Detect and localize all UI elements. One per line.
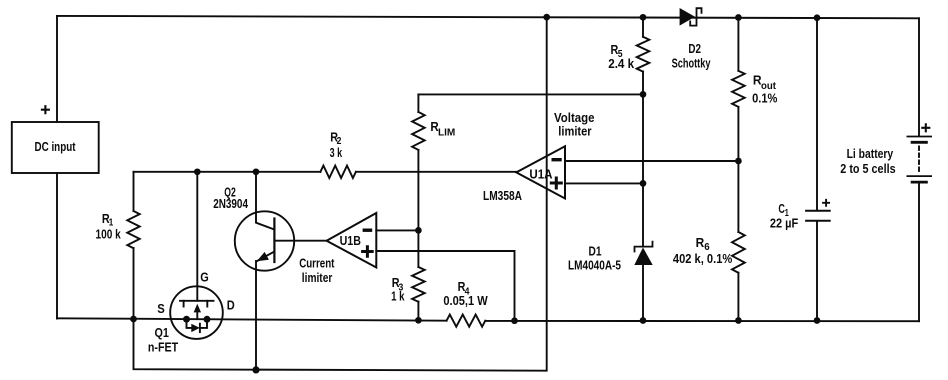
wire DC input negative lead <box>56 173 58 319</box>
wire feedback line RLIM top <box>418 93 643 95</box>
svg-text:LM4040A-5: LM4040A-5 <box>568 258 621 273</box>
zener D1 cathode bar <box>635 242 653 252</box>
svg-text:LM358A: LM358A <box>483 188 522 203</box>
wire C1 top lead <box>816 18 818 210</box>
resistor R5 <box>637 37 650 72</box>
zener D1 triangle <box>634 248 652 266</box>
MOSFET Q1 circle <box>170 286 223 339</box>
resistor R1 <box>127 211 139 248</box>
resistor R2 <box>320 166 355 178</box>
junction dot top rail x546 <box>543 14 550 21</box>
wire mid rail right <box>485 320 919 322</box>
MOSFET Q1 body diode triangle <box>191 324 200 332</box>
junction dot top rail x817 <box>814 14 821 21</box>
wire battery top lead <box>918 18 920 135</box>
wire R1 bottom lead <box>133 248 135 319</box>
wire U1B non-inverting input to R4 right <box>376 251 514 321</box>
resistor R3 <box>412 267 425 302</box>
junction dot gate rail x256 <box>253 168 260 175</box>
wire gate line Q1 <box>196 172 198 301</box>
svg-text:0.05,1 W: 0.05,1 W <box>443 293 488 308</box>
op-amp U1A plus sign <box>551 178 561 188</box>
svg-text:limiter: limiter <box>558 124 591 139</box>
svg-text:DC input: DC input <box>35 139 77 154</box>
svg-text:n-FET: n-FET <box>148 340 178 355</box>
wire U1B inverting input <box>376 229 418 231</box>
op-amp U1B plus sign <box>363 247 373 257</box>
diode D2 cathode bar with schottky hooks <box>690 8 701 25</box>
junction dot U1A inverting node <box>735 158 742 165</box>
svg-text:Q1: Q1 <box>155 325 169 340</box>
wire R5 column top <box>642 17 644 37</box>
MOSFET Q1 substrate arrowhead <box>194 304 201 313</box>
battery dashed link <box>918 147 920 172</box>
MOSFET Q1 gate bar ticks <box>184 301 208 307</box>
svg-text:U1B: U1B <box>340 233 361 248</box>
svg-text:D: D <box>227 298 235 313</box>
wire R1 top lead <box>133 172 135 211</box>
wire D1 bottom lead <box>642 265 644 321</box>
junction dot mid rail x514 <box>511 317 518 324</box>
battery cell 2 long plate <box>907 175 931 177</box>
wire Rout to R6 <box>737 107 739 232</box>
junction dot mid rail x817 <box>814 317 821 324</box>
svg-text:1 k: 1 k <box>391 288 405 303</box>
svg-text:Li battery: Li battery <box>847 146 894 161</box>
svg-text:U1A: U1A <box>529 166 553 181</box>
svg-text:100 k: 100 k <box>96 227 122 242</box>
wire DC input positive lead <box>56 16 58 122</box>
op-amp U1B minus sign <box>364 228 370 231</box>
capacitor C1 plates <box>806 211 830 221</box>
svg-text:G: G <box>200 270 209 285</box>
transistor Q2 base bar <box>273 219 275 263</box>
wire Rout column top <box>737 18 739 71</box>
wire node gate rail (R1 to R2) <box>134 171 321 173</box>
battery cell 2 short plate <box>912 181 926 184</box>
plus sign battery <box>922 124 929 131</box>
svg-text:Current: Current <box>299 256 335 271</box>
junction dot mid rail x133 <box>130 316 137 323</box>
wire top rail <box>57 16 919 18</box>
junction dot Q1 drain <box>204 316 211 323</box>
junction dot gate rail x197 <box>194 168 201 175</box>
wire Q2 collector lead <box>256 172 274 230</box>
junction dot Q1 source <box>183 316 190 323</box>
svg-text:22 µF: 22 µF <box>770 216 798 231</box>
wire R5 bottom to D1 <box>642 72 644 247</box>
wire U1A non-inverting input <box>565 182 643 184</box>
plus sign C1 <box>823 200 829 206</box>
wire battery bottom lead <box>918 184 920 322</box>
wire C1 bottom lead <box>816 222 818 321</box>
wire R3 bottom lead <box>417 302 419 321</box>
op-amp U1A <box>516 146 565 198</box>
wire mid rail left <box>57 318 447 320</box>
junction dot U1B inverting node <box>415 227 422 234</box>
svg-text:LIM: LIM <box>438 128 455 139</box>
svg-text:2 to 5 cells: 2 to 5 cells <box>840 161 895 176</box>
svg-text:2N3904: 2N3904 <box>213 196 248 211</box>
svg-text:D2: D2 <box>688 41 701 56</box>
battery cell 1 short plate <box>912 141 926 144</box>
transistor Q2 emitter slant <box>258 252 275 261</box>
svg-text:Schottky: Schottky <box>672 56 711 71</box>
wire ground return: R1 junction down, bottom rail, riser to top rail <box>134 17 547 371</box>
MOSFET Q1 substrate arrow shaft <box>196 312 198 319</box>
resistor RLIM <box>412 112 425 150</box>
transistor Q2 circle <box>235 211 294 270</box>
svg-text:D1: D1 <box>589 244 602 259</box>
wire Q2 base lead <box>274 240 326 242</box>
plus sign DC input <box>42 106 49 113</box>
wire RLIM column upper <box>417 94 419 112</box>
resistor R4 <box>447 315 486 327</box>
battery cell 1 long plate <box>907 136 931 138</box>
junction dot mid rail x738 <box>735 317 742 324</box>
junction dot top rail x738 <box>735 14 742 21</box>
op-amp U1A minus sign <box>553 158 560 161</box>
junction dot mid rail x643 <box>640 317 647 324</box>
DC input box <box>12 122 99 173</box>
resistor R6 <box>732 232 745 273</box>
diode D2 triangle <box>680 8 695 26</box>
junction dot top rail x643 <box>640 14 647 21</box>
wire R2 right to U1A output <box>356 171 516 173</box>
wire R6 bottom lead <box>737 273 739 321</box>
junction dot U1A non-inverting node <box>640 180 647 187</box>
op-amp U1B <box>327 213 377 268</box>
junction dot feedback node <box>640 91 647 98</box>
MOSFET Q1 body diode cathode bar <box>199 324 201 332</box>
svg-text:3 k: 3 k <box>330 145 343 160</box>
wire RLIM to R3 column <box>417 150 419 267</box>
svg-text:S: S <box>157 301 165 316</box>
junction dot bottom rail x256 <box>252 366 259 373</box>
wire Q2 emitter lead <box>255 261 257 370</box>
wire U1A inverting input <box>565 160 738 162</box>
svg-text:0.1%: 0.1% <box>752 91 778 106</box>
resistor Rout <box>732 71 745 107</box>
MOSFET Q1 gate bar <box>180 300 214 302</box>
transistor Q2 emitter arrow <box>257 252 269 261</box>
svg-text:limiter: limiter <box>302 270 333 285</box>
svg-text:2.4 k: 2.4 k <box>608 56 635 71</box>
svg-text:402 k, 0.1%: 402 k, 0.1% <box>673 251 733 266</box>
MOSFET Q1 body diode loop <box>187 319 208 328</box>
junction dot mid rail x418 <box>415 317 422 324</box>
